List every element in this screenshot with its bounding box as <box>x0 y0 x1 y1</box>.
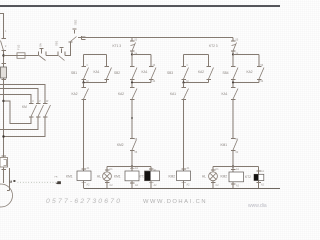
button SB1 plunger <box>61 49 63 54</box>
bottom h <box>84 82 107 84</box>
svg-text:KM1: KM1 <box>66 175 73 179</box>
svg-text:43: 43 <box>153 64 156 67</box>
svg-text:A2: A2 <box>236 185 240 188</box>
svg-text:KT1: KT1 <box>139 175 145 179</box>
svg-text:SB1: SB1 <box>55 40 59 46</box>
contact KA2b right <box>257 66 262 68</box>
fuse FU2 <box>17 53 25 59</box>
svg-text:SA: SA <box>39 43 43 47</box>
wire down <box>83 100 85 172</box>
svg-text:KA1: KA1 <box>142 70 148 74</box>
svg-text:56: 56 <box>236 53 239 56</box>
svg-text:U: U <box>32 100 34 103</box>
svg-text:A1: A1 <box>236 168 240 171</box>
svg-text:A2: A2 <box>135 184 139 187</box>
switch SA plunger <box>41 49 43 54</box>
svg-text:KT2 3: KT2 3 <box>209 44 218 48</box>
svg-text:KM2: KM2 <box>169 175 176 179</box>
contact KA2 series <box>83 83 85 88</box>
contact KA2 right <box>207 66 212 68</box>
switch SA blade <box>39 56 46 61</box>
svg-text:KA1: KA1 <box>94 70 100 74</box>
svg-text:KM2: KM2 <box>117 143 124 147</box>
svg-text:56: 56 <box>135 151 138 154</box>
wire down <box>131 100 133 139</box>
svg-text:KM2: KM2 <box>221 175 228 179</box>
node junction L-control <box>2 54 4 56</box>
svg-text:KA2: KA2 <box>198 70 204 74</box>
contact KA1 right <box>105 66 110 68</box>
contact SB6 left <box>231 66 236 68</box>
wire down <box>183 100 185 172</box>
contact KA1 series <box>232 83 234 88</box>
svg-text:C1: C1 <box>110 168 114 171</box>
svg-text:55: 55 <box>135 138 138 141</box>
contact SB3 left <box>82 66 87 68</box>
branch1 frame <box>66 55 112 189</box>
svg-text:54: 54 <box>261 80 264 83</box>
fuse FU1 <box>1 67 7 78</box>
svg-text:A2: A2 <box>261 184 265 187</box>
svg-text:KM1: KM1 <box>221 143 228 147</box>
svg-text:V: V <box>39 100 41 103</box>
branch2 frame <box>97 53 160 188</box>
button SB2 tick <box>69 41 73 43</box>
wire down <box>232 100 234 139</box>
svg-text:HL: HL <box>97 175 101 179</box>
thermal relay FR <box>0 156 10 191</box>
timer coil KT2 <box>258 167 260 175</box>
svg-text:2: 2 <box>5 45 7 48</box>
contact KM1 interlock <box>231 138 236 140</box>
svg-text:KA1: KA1 <box>222 92 228 96</box>
svg-text:A2: A2 <box>87 184 91 187</box>
rail2 control top <box>78 37 233 39</box>
svg-text:C1: C1 <box>216 168 220 171</box>
svg-text:44: 44 <box>153 80 156 83</box>
svg-text:A1: A1 <box>261 170 265 173</box>
svg-text:W: W <box>46 100 49 103</box>
svg-text:A1: A1 <box>135 167 139 170</box>
svg-text:M: M <box>10 180 13 184</box>
svg-text:55: 55 <box>236 39 239 42</box>
contactor KM 3-pole contacts <box>22 100 51 117</box>
svg-text:54: 54 <box>135 53 138 56</box>
main loops: phase line 1 <box>0 85 45 104</box>
svg-text:0577-62730670: 0577-62730670 <box>46 198 122 205</box>
svg-text:SB2: SB2 <box>74 19 78 25</box>
wire coil row left <box>107 166 151 168</box>
svg-text:KA2: KA2 <box>72 92 78 96</box>
svg-text:C: C <box>87 64 89 67</box>
coil KM2 <box>182 168 187 170</box>
motor M <box>0 180 15 207</box>
coil KA1 <box>82 168 87 170</box>
svg-text:61: 61 <box>236 138 239 141</box>
contact KT2 NC hang <box>209 38 239 56</box>
contact SB4 left <box>130 66 135 68</box>
coil KM2b <box>232 167 234 173</box>
wire <box>25 55 39 57</box>
svg-text:FU2: FU2 <box>17 44 21 50</box>
svg-text:KA1: KA1 <box>170 92 176 96</box>
button SB2 terminal bracket <box>82 35 86 37</box>
wire <box>46 55 58 57</box>
svg-text:53: 53 <box>135 39 138 42</box>
svg-text:53: 53 <box>261 64 264 67</box>
lamp HL1 <box>106 167 108 173</box>
contact KA1 series <box>183 83 185 88</box>
svg-text:SB1: SB1 <box>71 71 77 75</box>
phase line 2 <box>0 89 38 104</box>
svg-text:KT1 3: KT1 3 <box>113 44 122 48</box>
svg-text:KA2: KA2 <box>118 92 124 96</box>
svg-text:A1: A1 <box>187 167 191 170</box>
svg-text:WWW.DOHAI.CN: WWW.DOHAI.CN <box>143 199 207 205</box>
svg-text:1: 1 <box>5 30 7 33</box>
contact SB5 left <box>182 66 187 68</box>
phase line 3 <box>0 95 31 104</box>
bottom h <box>184 82 209 84</box>
FR contact mark <box>55 181 61 184</box>
svg-text:C: C <box>187 64 189 67</box>
wire left feed entry <box>0 14 4 39</box>
loop4 wire <box>4 101 32 124</box>
bottom h <box>233 82 259 84</box>
wire coil row right <box>213 166 259 168</box>
coil KM1 <box>131 167 133 172</box>
branch3 frame <box>167 55 214 189</box>
button SB1 ticks <box>57 52 59 56</box>
svg-text:KT2: KT2 <box>245 175 251 179</box>
svg-text:KA2: KA2 <box>247 70 253 74</box>
switch QS1 tick top <box>2 38 7 40</box>
svg-text:C2: C2 <box>216 184 220 187</box>
svg-text:SB4: SB4 <box>223 71 229 75</box>
contact KA2 series <box>131 83 133 88</box>
node loop4 start <box>2 100 4 102</box>
svg-text:SB3: SB3 <box>167 71 173 75</box>
contact KM2 interlock <box>130 138 135 140</box>
wire up to rail2 <box>65 42 71 56</box>
bottom rail <box>84 188 280 190</box>
contact KT1 NC hang <box>113 38 138 56</box>
switch SA ticks <box>38 52 40 56</box>
svg-text:KM: KM <box>22 105 27 109</box>
branch4 frame <box>202 53 265 188</box>
switch QS1 tick bottom <box>2 50 7 52</box>
svg-text:C2: C2 <box>110 184 114 187</box>
top border rail <box>0 5 280 7</box>
wire control feed horizontal <box>4 55 18 57</box>
svg-text:KM1: KM1 <box>114 175 121 179</box>
loop returns <box>0 117 38 130</box>
switch QS1 blade <box>1 41 4 51</box>
wire left vertical <box>3 51 5 158</box>
svg-text:www.dia: www.dia <box>248 203 267 209</box>
svg-text:A2: A2 <box>154 184 158 187</box>
svg-text:A2: A2 <box>187 184 191 187</box>
FR linkage dashed <box>18 181 56 183</box>
svg-text:FR: FR <box>55 177 58 179</box>
svg-text:HL: HL <box>202 175 206 179</box>
node return junction <box>2 135 4 137</box>
contact KA1b right <box>149 66 154 68</box>
timer coil KT1 <box>150 167 152 172</box>
svg-text:A1: A1 <box>87 167 91 170</box>
bottom h <box>132 82 151 84</box>
svg-text:62: 62 <box>236 151 239 154</box>
button SB2 blade <box>71 37 77 42</box>
button SB1 blade <box>59 56 65 61</box>
lamp HL2 <box>212 167 214 173</box>
fuse FU1 ticks <box>2 63 7 65</box>
svg-text:SB2: SB2 <box>114 71 120 75</box>
button SB2 plunger <box>74 30 76 34</box>
